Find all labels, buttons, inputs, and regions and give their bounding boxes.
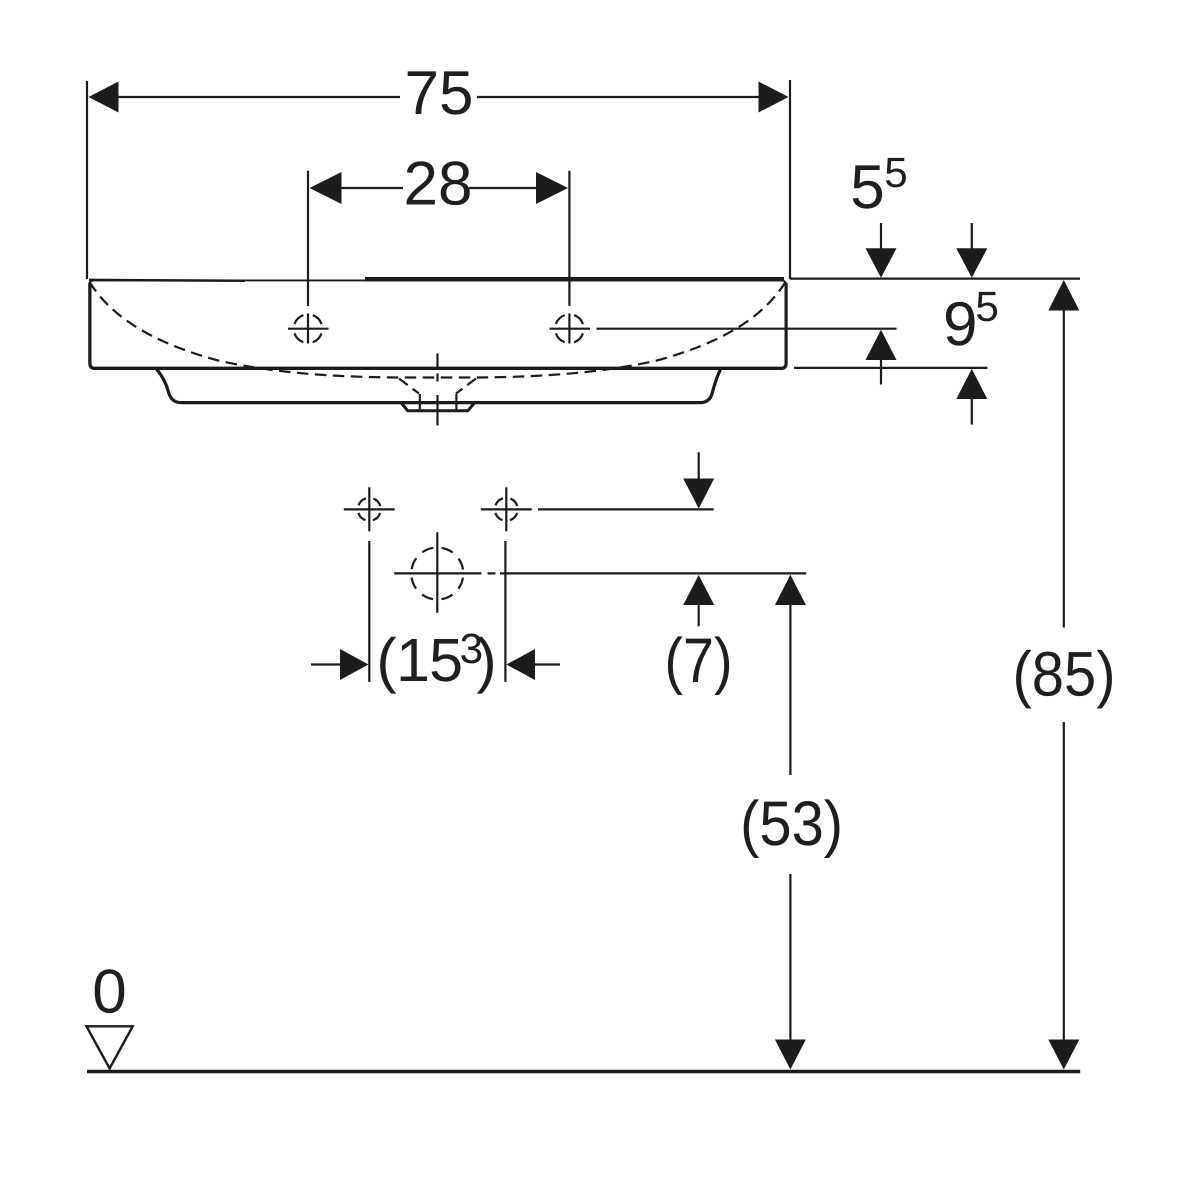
- dimension 7: upper arrow stem: [698, 452, 700, 480]
- reference line from overflow hole: short dash: [488, 572, 496, 574]
- drain hole left edge: [419, 394, 421, 410]
- dimension 28: left arrowhead: [310, 172, 342, 204]
- wall mounting hole right: horizontal centerline: [481, 508, 532, 510]
- dimension 75: dimension line right segment: [477, 96, 765, 98]
- reference line from right faucet hole: [597, 328, 897, 330]
- dimension 75: right extension line: [789, 80, 791, 279]
- svg-text:9: 9: [943, 290, 977, 359]
- left faucet hole: dashed circle: [294, 314, 323, 343]
- dimension 15.3: left arrowhead: [340, 649, 369, 680]
- dimension 7: upper arrowhead: [683, 479, 714, 509]
- svg-text:(7): (7): [665, 626, 733, 696]
- dimension 7: lower arrow stem: [698, 604, 700, 626]
- svg-text:(53): (53): [740, 789, 843, 859]
- dimension 75: left extension line: [86, 81, 88, 279]
- dimension 75: dimension line left segment: [112, 96, 400, 98]
- washbasin lower body: [156, 369, 720, 403]
- overflow hole: horizontal centerline: [394, 572, 481, 574]
- dimension 9.5: upper arrow stem: [971, 223, 973, 250]
- drain funnel dashed left: [399, 379, 419, 394]
- wall mounting hole left: vertical centerline: [368, 487, 370, 531]
- dimension 5.5: upper arrowhead: [866, 248, 897, 277]
- dimension 15.3: left extension line: [368, 541, 370, 682]
- dimension 5.5: lower arrow stem: [880, 359, 882, 385]
- svg-text:5: 5: [884, 149, 908, 196]
- wall mounting hole right: vertical centerline: [505, 487, 507, 531]
- wall mounting hole right: dashed circle: [495, 498, 518, 521]
- dimension 15.3: right arrowhead: [507, 649, 536, 680]
- dimension 53: lower stem: [789, 874, 791, 1041]
- svg-text:28: 28: [404, 150, 473, 219]
- washbasin rim left right bottom edges: [90, 283, 786, 368]
- right faucet hole: horizontal centerline: [550, 328, 591, 330]
- inner bowl dashed profile: [90, 282, 786, 378]
- svg-text:): ): [476, 626, 496, 694]
- svg-text:75: 75: [405, 59, 474, 128]
- reference line from wall holes: [538, 508, 714, 510]
- dimension 15.3: left arrow stem: [311, 663, 340, 665]
- svg-text:(85): (85): [1013, 640, 1116, 710]
- dimension 53: upper stem: [789, 604, 791, 775]
- dimension 28: left extension line: [307, 171, 309, 306]
- dimension 28: dimension line left segment: [335, 187, 403, 189]
- dimension 28: right extension line: [568, 171, 570, 306]
- dimension 53: bottom arrowhead: [775, 1040, 806, 1070]
- dimension 53: top arrowhead: [775, 575, 806, 605]
- drain flange: [402, 403, 475, 411]
- right faucet hole: vertical centerline: [568, 314, 570, 344]
- wall mounting hole left: horizontal centerline: [344, 508, 395, 510]
- overflow hole: dashed circle: [411, 548, 463, 600]
- dimension 85: top arrowhead: [1048, 280, 1079, 311]
- dimension 28: right arrowhead: [536, 172, 568, 204]
- dimension 85: upper stem: [1063, 310, 1065, 628]
- dimension 75: left arrowhead: [89, 82, 119, 113]
- reference line from overflow hole: [500, 572, 806, 574]
- right faucet hole: dashed circle: [555, 314, 584, 343]
- dimension 75: right arrowhead: [759, 82, 789, 113]
- drain funnel dashed right: [456, 379, 476, 394]
- dimension 9.5: lower arrow stem: [971, 398, 973, 425]
- drain hole right edge: [455, 394, 457, 410]
- overflow hole: vertical centerline: [436, 532, 438, 613]
- dimension 85: lower stem: [1063, 722, 1065, 1041]
- dimension 9.5: upper arrowhead: [956, 248, 987, 277]
- left faucet hole: vertical centerline: [307, 314, 309, 344]
- dimension 5.5: upper arrow stem: [880, 223, 882, 250]
- washbasin front rim left taper: [89, 279, 245, 282]
- ground line: [87, 1070, 1080, 1073]
- datum triangle symbol: [87, 1026, 133, 1068]
- washbasin rim outline: [89, 280, 786, 367]
- left faucet hole: horizontal centerline: [288, 328, 329, 330]
- dimension 85: bottom arrowhead: [1048, 1040, 1079, 1070]
- svg-text:(15: (15: [376, 626, 462, 694]
- wall mounting hole left: dashed circle: [358, 498, 381, 521]
- washbasin rear rim thick edge: [365, 277, 784, 281]
- reference line rim bottom level: [794, 367, 988, 369]
- svg-text:5: 5: [850, 153, 884, 222]
- dimension 28: dimension line right segment: [469, 187, 542, 189]
- dimension 7: lower arrowhead: [683, 575, 714, 605]
- svg-text:5: 5: [975, 283, 999, 330]
- svg-text:0: 0: [92, 958, 126, 1027]
- reference line rim top level: [790, 278, 1080, 280]
- dimension 5.5: lower arrowhead: [866, 330, 897, 360]
- dimension 15.3: right arrow stem: [535, 663, 560, 665]
- dimension 15.3: right extension line: [504, 541, 506, 682]
- dimension 9.5: lower arrowhead: [956, 369, 987, 399]
- drain centerline: [436, 354, 438, 426]
